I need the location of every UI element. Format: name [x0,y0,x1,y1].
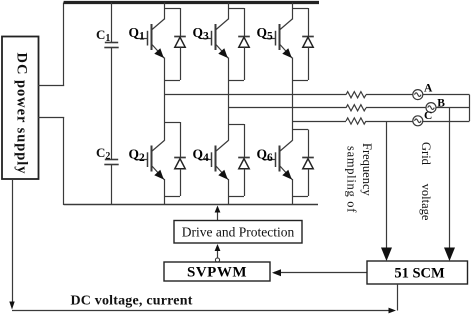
transistor Q2 [137,141,165,181]
wire capacitor mid [111,48,113,160]
wire grid voltage tap [449,108,451,251]
wire leg3 lower diode branch [292,129,308,131]
Drive and Protection box [174,221,302,244]
wire leg3 upper diode jog [292,80,308,82]
wire leg3 lower diode jog [292,196,308,198]
51 SCM box [367,261,468,284]
wire DC supply down [12,179,14,303]
arrowhead DC feedback down [9,302,14,310]
wire leg2 upper diode lead bottom [244,47,246,80]
diode D1 (across Q1) [174,37,186,48]
wire phase C to source [366,121,413,123]
arrowhead frequency sampling into 51 SCM [381,248,392,262]
svg-text:SVPWM: SVPWM [187,265,247,281]
svg-text:Q6: Q6 [257,147,274,165]
svg-text:C1: C1 [96,27,110,44]
svg-text:Q1: Q1 [129,25,146,43]
inductor/resistor phase A [346,92,366,98]
wire leg2 lower emitter down [228,179,230,205]
wire leg1 lower collector stub [164,95,166,141]
diode D3 (across Q5) [302,37,314,48]
svg-text:C2: C2 [96,145,110,162]
wire leg1 collector stub [164,3,166,20]
wire frequency sampling tap [386,121,388,251]
wire leg2 lower collector stub [228,108,230,141]
wire leg1 lower emitter down [164,179,166,205]
svg-text:sampling of: sampling of [345,146,359,213]
inductor/resistor phase C [346,118,366,124]
capacitor C2 [104,160,118,165]
wire leg3 lower emitter down [292,179,294,205]
transistor Q3 [201,19,229,59]
wire leg3 upper diode branch [292,8,308,10]
wire leg1 lower diode branch [164,122,180,124]
wire leg1 upper diode jog [164,80,180,82]
wire leg2 upper diode lead top [244,8,246,36]
wire phase A to neutral [423,94,470,96]
wire leg1 lower diode lead top [180,122,182,158]
svg-text:Grid voltage: Grid voltage [419,142,433,221]
wire phase C to filter [292,121,346,123]
capacitor C1 [104,43,118,48]
wire leg3 upper diode lead top [308,8,310,36]
diode D4 (across Q2) [174,158,186,169]
wire leg1 upper diode branch [164,8,180,10]
wire DC feedback bottom [12,310,390,312]
wire top bus [64,1,319,4]
diode D5 (across Q4) [238,158,250,169]
wire 51SCM-to-SVPWM line [274,272,367,274]
junction circle on SVPWM top [215,258,219,262]
arrowhead grid voltage into 51 SCM [444,248,455,262]
svg-text:Q2: Q2 [129,147,146,165]
svg-text:51 SCM: 51 SCM [394,266,445,282]
wire capacitor branch lower [111,165,113,205]
wire leg3 lower collector stub [292,121,294,141]
svg-text:Drive and Protection: Drive and Protection [182,225,295,240]
wire leg1 lower diode lead bottom [180,169,182,196]
transistor Q5 [265,19,293,59]
AC source B [426,103,436,113]
SVPWM box [164,262,270,281]
diode D2 (across Q3) [238,37,250,48]
wire leg1 upper emitter down [164,58,166,95]
wire leg3 lower diode lead top [308,130,310,158]
inductor/resistor phase B [346,105,366,111]
wire leg2 lower diode lead top [244,124,246,158]
wire leg3 upper emitter down [292,58,294,122]
wire 51SCM bottom drop [397,284,399,311]
wire DC- stub [38,117,64,119]
svg-text:Q3: Q3 [193,25,210,43]
transistor Q4 [201,141,229,181]
wire phase B to source [366,107,426,109]
wire leg2 lower diode jog [228,196,244,198]
wire phase B to neutral [436,107,470,109]
wire leg2 collector stub [228,3,230,20]
wire phase C to neutral [423,121,470,123]
transistor Q6 [265,141,293,181]
wire leg3 lower diode lead bottom [308,169,310,196]
svg-text:Q5: Q5 [257,25,274,43]
wire leg3 collector stub [292,3,294,20]
svg-text:C: C [424,110,432,122]
arrowhead SVPWM-to-drive [215,244,221,251]
wire leg2 upper diode jog [228,80,244,82]
arrowhead drive-to-bridge [215,206,221,213]
wire phase A to source [366,94,413,96]
wire phase A to filter [164,94,346,96]
svg-text:Q4: Q4 [193,147,210,165]
diode D6 (across Q6) [302,158,314,169]
wire leg3 upper diode lead bottom [308,47,310,80]
arrowhead DC feedback right [389,308,397,314]
wire leg2 lower diode lead bottom [244,169,246,196]
wire DC+ stub [38,85,64,87]
wire left DC link lower [63,118,65,206]
wire leg1 lower diode jog [164,196,180,198]
wire left DC link upper [63,3,65,86]
svg-text:DC voltage, current: DC voltage, current [70,294,192,309]
transistor Q1 [137,19,165,59]
wire leg2 upper emitter down [228,58,230,108]
wire SVPWM-to-drive line [217,246,219,259]
svg-text:DC power supply: DC power supply [14,53,30,175]
wire capacitor branch upper [111,3,113,43]
DC power supply box [2,37,39,180]
wire leg2 upper diode branch [228,8,244,10]
arrowhead into SVPWM [272,269,281,276]
AC source C [413,116,423,126]
svg-text:Frequency: Frequency [360,143,374,197]
wire bottom bus [64,204,318,206]
wire phase B to filter [228,107,346,109]
wire neutral vertical [469,95,471,121]
AC source A [413,90,423,100]
wire leg1 upper diode lead top [180,8,182,36]
wire leg1 upper diode lead bottom [180,47,182,80]
wire drive-to-bridge arrow line [217,208,219,221]
wire leg2 lower diode branch [228,124,244,126]
svg-text:A: A [424,83,433,95]
